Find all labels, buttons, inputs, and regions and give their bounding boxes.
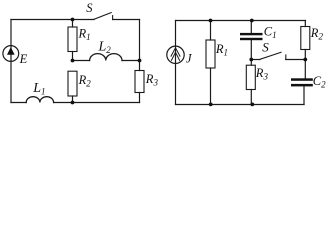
svg-text:C1: C1 (264, 25, 277, 41)
svg-text:R1: R1 (78, 27, 91, 43)
svg-text:L2: L2 (98, 40, 112, 56)
svg-text:R1: R1 (215, 42, 228, 58)
svg-text:J: J (186, 52, 193, 66)
svg-text:E: E (19, 52, 28, 66)
svg-text:L1: L1 (32, 81, 45, 97)
svg-text:R3: R3 (145, 72, 159, 88)
svg-text:S: S (262, 40, 269, 55)
svg-text:C2: C2 (313, 74, 326, 90)
svg-text:R2: R2 (310, 26, 324, 42)
svg-text:S: S (86, 1, 93, 15)
svg-text:R2: R2 (78, 73, 92, 89)
svg-text:R3: R3 (255, 66, 269, 82)
